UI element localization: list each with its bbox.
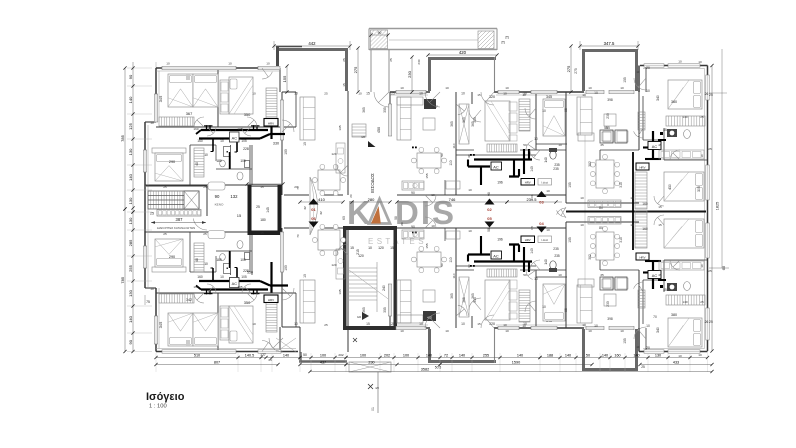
svg-text:10: 10: [678, 60, 682, 64]
svg-text:355: 355: [383, 307, 387, 313]
svg-text:15: 15: [342, 83, 346, 87]
svg-text:15: 15: [390, 246, 394, 250]
svg-text:10: 10: [461, 322, 465, 326]
terrace top-center walls: [428, 57, 496, 91]
svg-text:160: 160: [197, 275, 203, 279]
svg-text:10: 10: [523, 92, 527, 96]
svg-text:340: 340: [656, 95, 660, 101]
right wing outer walls: [639, 66, 708, 352]
svg-text:120: 120: [331, 152, 336, 156]
svg-text:240: 240: [382, 285, 386, 291]
svg-text:230: 230: [606, 301, 610, 307]
svg-text:746: 746: [449, 197, 456, 202]
closet X bottom-center: [459, 277, 469, 317]
svg-text:140.5: 140.5: [245, 353, 255, 357]
svg-text:4/8: 4/8: [375, 386, 379, 390]
svg-text:10: 10: [228, 62, 232, 66]
svg-text:10: 10: [358, 92, 362, 96]
svg-text:285: 285: [128, 239, 133, 246]
svg-text:10: 10: [534, 277, 538, 281]
svg-text:365: 365: [462, 297, 466, 303]
svg-text:155: 155: [425, 243, 429, 248]
svg-text:427: 427: [432, 105, 438, 109]
svg-text:20: 20: [400, 222, 404, 226]
svg-text:72: 72: [444, 353, 448, 357]
svg-text:AC: AC: [493, 253, 499, 258]
svg-text:365: 365: [462, 117, 466, 123]
kitchen counters center: [402, 181, 424, 239]
right wing wardrobes: [638, 112, 645, 308]
svg-text:10: 10: [588, 86, 592, 90]
svg-text:10: 10: [678, 354, 682, 358]
svg-text:26: 26: [705, 320, 709, 324]
svg-text:10: 10: [594, 324, 598, 328]
corridor dimension line: [298, 197, 562, 226]
svg-text:345: 345: [546, 95, 552, 99]
entrance walkway: [352, 50, 389, 147]
svg-text:10: 10: [698, 353, 702, 357]
svg-text:15: 15: [477, 322, 481, 326]
svg-text:25: 25: [700, 115, 704, 119]
svg-text:10: 10: [503, 323, 507, 327]
svg-text:15: 15: [366, 92, 370, 96]
svg-text:387: 387: [176, 217, 184, 222]
terrace bottom-center walls: [428, 329, 496, 363]
svg-text:130: 130: [128, 148, 133, 155]
svg-text:08: 08: [487, 228, 491, 232]
svg-text:140: 140: [128, 173, 133, 180]
AC bottom-right apartment: [643, 260, 667, 292]
bedrooms right-mid beds: [635, 150, 704, 270]
svg-text:120: 120: [378, 246, 384, 250]
svg-text:105: 105: [241, 275, 247, 279]
bedroom bottom-left2 double bed: [220, 300, 253, 343]
AC ducts bottom-center apartment: [412, 232, 552, 273]
svg-text:10: 10: [419, 322, 423, 326]
svg-text:HRV: HRV: [639, 166, 645, 170]
svg-text:275: 275: [566, 65, 571, 72]
left wing outer walls: [145, 68, 298, 352]
svg-text:25: 25: [342, 58, 346, 62]
svg-text:140: 140: [565, 353, 571, 357]
left wing bedroom partitions: [156, 68, 296, 352]
svg-text:1590: 1590: [512, 360, 520, 364]
svg-text:55: 55: [606, 126, 610, 130]
terrace top-left walls: [276, 46, 348, 91]
svg-text:230: 230: [407, 70, 412, 77]
svg-text:190: 190: [284, 265, 288, 271]
windows on exterior walls: [143, 64, 709, 353]
svg-text:125: 125: [128, 122, 133, 129]
room labels: [197, 68, 713, 344]
bathrooms left wing bottom: [194, 231, 252, 276]
svg-text:345: 345: [158, 96, 163, 103]
svg-text:90: 90: [128, 339, 133, 344]
svg-text:GR: GR: [357, 315, 361, 319]
apartment number markers: [309, 191, 547, 233]
svg-text:50.5: 50.5: [435, 366, 442, 370]
svg-text:10: 10: [468, 229, 472, 233]
svg-text:10: 10: [400, 329, 404, 333]
svg-text:50: 50: [523, 273, 527, 277]
svg-text:25: 25: [163, 232, 167, 236]
svg-text:3582: 3582: [421, 367, 429, 371]
svg-text:10: 10: [630, 196, 634, 200]
svg-text:25: 25: [203, 232, 207, 236]
svg-text:105: 105: [240, 159, 246, 163]
svg-text:10: 10: [646, 89, 650, 93]
svg-text:342: 342: [186, 298, 192, 302]
svg-text:110: 110: [452, 143, 456, 148]
svg-text:450: 450: [377, 127, 381, 133]
svg-text:25: 25: [709, 320, 713, 324]
svg-text:105: 105: [237, 285, 242, 289]
svg-text:155: 155: [282, 75, 287, 82]
svg-text:10: 10: [580, 223, 584, 227]
svg-text:275: 275: [574, 68, 578, 74]
svg-text:25: 25: [256, 205, 260, 209]
svg-text:365: 365: [362, 307, 366, 313]
right bathrooms: [667, 129, 690, 291]
inner wall faces: [148, 69, 705, 349]
svg-text:32: 32: [303, 206, 307, 210]
svg-text:785: 785: [120, 134, 125, 141]
svg-text:347.5: 347.5: [604, 41, 615, 46]
svg-text:HRV: HRV: [268, 121, 274, 125]
svg-text:160: 160: [197, 139, 203, 143]
svg-text:26: 26: [705, 92, 709, 96]
svg-text:10: 10: [204, 153, 208, 157]
svg-text:02: 02: [487, 207, 492, 212]
svg-text:10: 10: [431, 224, 435, 228]
svg-text:140: 140: [128, 315, 133, 322]
svg-text:15: 15: [260, 185, 264, 189]
svg-text:25: 25: [389, 58, 393, 62]
elevator shaft dark walls: [245, 182, 284, 235]
svg-text:550: 550: [247, 271, 253, 275]
left living sofas: [300, 97, 315, 323]
svg-text:10: 10: [558, 143, 562, 147]
extra door arcs: [207, 104, 680, 316]
svg-text:75: 75: [146, 300, 150, 304]
svg-text:280: 280: [368, 197, 375, 202]
left wing mid partitions: [145, 145, 282, 272]
svg-text:365: 365: [450, 121, 454, 127]
svg-text:10: 10: [431, 193, 435, 197]
svg-text:807: 807: [214, 360, 220, 364]
svg-text:105: 105: [241, 139, 247, 143]
left kitchens: [336, 143, 345, 279]
svg-text:32: 32: [319, 211, 323, 215]
svg-text:50: 50: [586, 353, 590, 357]
svg-text:10: 10: [588, 329, 592, 333]
svg-text:345: 345: [158, 322, 163, 329]
right wing partitions: [600, 66, 707, 351]
bottom extension lines: [156, 353, 708, 372]
svg-text:HRV: HRV: [639, 256, 645, 260]
svg-text:40: 40: [195, 162, 199, 166]
svg-text:145: 145: [266, 207, 270, 213]
svg-text:20: 20: [646, 346, 650, 350]
svg-text:10: 10: [445, 329, 449, 333]
svg-text:35: 35: [600, 273, 604, 277]
svg-text:25: 25: [708, 269, 712, 273]
svg-text:380: 380: [671, 313, 677, 317]
svg-text:15: 15: [477, 93, 481, 97]
svg-text:10: 10: [620, 329, 624, 333]
svg-text:340: 340: [656, 327, 660, 333]
svg-text:Π: Π: [505, 35, 508, 40]
coffee tables center: [423, 118, 435, 302]
right dimension column: [709, 49, 729, 353]
bedroom 02 bed: [485, 93, 552, 152]
svg-text:228: 228: [243, 147, 249, 151]
svg-text:90: 90: [467, 264, 471, 268]
svg-text:50: 50: [440, 153, 444, 157]
bedroom top-left2 double bed: [220, 77, 253, 117]
svg-text:110: 110: [452, 273, 456, 278]
svg-text:HRV: HRV: [525, 181, 531, 185]
svg-text:120: 120: [331, 263, 336, 267]
svg-text:398: 398: [607, 98, 613, 102]
bedroom 05 bed: [485, 269, 552, 328]
svg-text:365: 365: [362, 107, 366, 113]
svg-text:10: 10: [266, 62, 270, 66]
svg-text:437: 437: [320, 360, 326, 364]
svg-text:90: 90: [128, 74, 133, 79]
svg-text:10: 10: [303, 142, 307, 146]
svg-text:20: 20: [646, 66, 650, 70]
svg-text:10: 10: [166, 62, 170, 66]
bathrooms center: [446, 148, 560, 272]
svg-text:10: 10: [220, 139, 224, 143]
svg-text:160: 160: [642, 227, 648, 231]
svg-text:10: 10: [542, 109, 546, 113]
svg-text:355: 355: [383, 107, 387, 113]
svg-text:10: 10: [523, 322, 527, 326]
more labels: [163, 59, 704, 357]
svg-text:105: 105: [240, 258, 246, 262]
svg-text:70: 70: [296, 234, 300, 238]
closet X top-center: [459, 104, 469, 144]
svg-text:110: 110: [449, 257, 453, 262]
svg-text:10: 10: [252, 92, 256, 96]
svg-text:350: 350: [244, 112, 251, 117]
svg-text:230: 230: [368, 360, 374, 364]
svg-text:382: 382: [588, 161, 592, 167]
svg-text:10: 10: [700, 264, 704, 268]
svg-text:15: 15: [260, 231, 264, 235]
svg-text:398: 398: [607, 317, 613, 321]
svg-text:10: 10: [580, 196, 584, 200]
svg-text:1 : 100: 1 : 100: [149, 404, 167, 410]
svg-text:100: 100: [320, 353, 326, 357]
svg-text:130: 130: [128, 197, 133, 204]
bathrooms left wing top: [194, 145, 252, 190]
svg-text:08: 08: [487, 192, 491, 196]
svg-text:ΔΙΑΚΟΠΤΕΣ ΚΑΤΑΝΑΛΩΤΩΝ: ΔΙΑΚΟΠΤΕΣ ΚΑΤΑΝΑΛΩΤΩΝ: [157, 226, 195, 230]
svg-text:180: 180: [260, 218, 266, 222]
svg-text:105: 105: [568, 182, 572, 188]
switchboard strip: [150, 210, 206, 230]
corridor walls: [284, 195, 639, 228]
exit walkway below: [349, 338, 391, 413]
entrance canopy: [369, 29, 509, 51]
wardrobe hatch bottom-left: [159, 294, 277, 332]
living bottom-center sofa/TV: [397, 280, 436, 323]
svg-text:80: 80: [599, 226, 603, 230]
bedroom small top beds: [543, 99, 565, 321]
svg-text:365: 365: [450, 293, 454, 299]
svg-text:10: 10: [636, 345, 640, 349]
terrace bottom-left wall: [299, 352, 347, 362]
svg-text:10: 10: [294, 322, 298, 326]
bedroom bottom-left single beds: [158, 298, 218, 346]
door arcs: [194, 68, 664, 352]
svg-text:255: 255: [128, 264, 133, 271]
AC ducts top-center apartment: [412, 147, 552, 186]
svg-text:195: 195: [338, 289, 342, 294]
svg-text:120: 120: [358, 254, 364, 258]
svg-text:275: 275: [353, 66, 358, 73]
svg-text:06: 06: [311, 216, 316, 221]
svg-text:382: 382: [588, 254, 592, 260]
svg-text:10: 10: [150, 121, 154, 125]
terrace bottom-right walls: [582, 329, 638, 371]
svg-text:DIS: DIS: [395, 194, 456, 231]
svg-text:70: 70: [653, 315, 657, 319]
svg-text:235: 235: [554, 254, 560, 258]
svg-text:140: 140: [128, 96, 133, 103]
svg-text:235: 235: [553, 247, 559, 251]
terrace top-right walls: [582, 49, 638, 91]
svg-text:290: 290: [169, 255, 175, 259]
svg-text:105: 105: [237, 127, 242, 131]
right living sofas: [577, 97, 594, 323]
AC ducts bottom-left apartment: [196, 262, 288, 294]
AC top-right apartment: [643, 128, 667, 160]
bedroom bottom-right bed: [656, 295, 705, 347]
svg-text:202: 202: [384, 353, 390, 357]
svg-text:196: 196: [497, 238, 503, 242]
svg-text:25: 25: [324, 323, 328, 327]
svg-text:127: 127: [260, 353, 266, 357]
svg-text:Π: Π: [501, 40, 504, 45]
svg-text:45: 45: [658, 273, 662, 277]
svg-text:140: 140: [682, 300, 687, 304]
svg-text:365: 365: [471, 293, 475, 299]
right kitchen appliances: [600, 130, 627, 290]
svg-text:140: 140: [517, 353, 523, 357]
left dimension column extension lines: [127, 68, 152, 352]
svg-text:35: 35: [600, 143, 604, 147]
wardrobe hatch top-left: [159, 88, 277, 126]
svg-text:25: 25: [324, 92, 328, 96]
svg-text:90: 90: [215, 194, 220, 199]
svg-text:100: 100: [403, 353, 409, 357]
svg-text:03: 03: [539, 200, 544, 205]
svg-text:160: 160: [614, 353, 620, 357]
svg-text:AC: AC: [652, 144, 658, 149]
svg-text:25: 25: [391, 322, 395, 326]
svg-text:10: 10: [636, 70, 640, 74]
svg-text:45: 45: [663, 128, 667, 132]
svg-text:140: 140: [283, 353, 289, 357]
svg-text:196: 196: [497, 181, 503, 185]
svg-text:140: 140: [530, 248, 534, 254]
svg-text:AC: AC: [493, 164, 499, 169]
svg-text:l.duct: l.duct: [541, 238, 548, 242]
svg-text:140: 140: [544, 157, 548, 163]
left staircase: [148, 191, 199, 209]
svg-text:90: 90: [411, 191, 415, 195]
svg-text:80: 80: [599, 206, 603, 210]
svg-text:25: 25: [163, 185, 167, 189]
svg-text:290: 290: [169, 160, 175, 164]
svg-text:15: 15: [658, 205, 662, 209]
svg-text:10: 10: [646, 324, 650, 328]
svg-text:15: 15: [237, 213, 242, 218]
left elevator X box: [146, 186, 242, 230]
svg-text:10: 10: [445, 86, 449, 90]
extra small labels: [150, 58, 712, 358]
svg-text:188: 188: [547, 353, 553, 357]
living top-center sofa/TV: [397, 97, 436, 140]
bedroom left-mid beds: [152, 148, 186, 272]
svg-text:105: 105: [568, 237, 572, 243]
svg-text:95: 95: [564, 108, 568, 112]
svg-text:10: 10: [220, 275, 224, 279]
svg-text:365: 365: [471, 121, 475, 127]
svg-text:140: 140: [544, 259, 548, 265]
bedroom top-left single beds: [158, 74, 218, 116]
svg-text:433: 433: [673, 360, 679, 364]
svg-text:315: 315: [619, 237, 623, 243]
svg-text:180: 180: [216, 258, 222, 262]
svg-text:10: 10: [582, 323, 586, 327]
right wing party wall (bold): [566, 210, 706, 212]
center outer walls: [390, 92, 584, 328]
svg-text:15: 15: [366, 322, 370, 326]
svg-text:25: 25: [203, 185, 207, 189]
svg-text:01: 01: [311, 207, 316, 212]
svg-text:HRV: HRV: [268, 298, 274, 302]
svg-text:10: 10: [503, 92, 507, 96]
svg-text:10: 10: [546, 189, 550, 193]
svg-text:60: 60: [342, 216, 346, 220]
svg-text:45: 45: [658, 143, 662, 147]
left dimension column: [120, 62, 156, 353]
svg-text:90: 90: [378, 31, 382, 35]
svg-text:10: 10: [558, 273, 562, 277]
svg-text:155: 155: [623, 338, 627, 344]
watermark KADIS ESTATES logo: [347, 194, 456, 246]
svg-text:180: 180: [216, 159, 222, 163]
bedroom top-right bed: [656, 80, 705, 126]
svg-text:140: 140: [602, 353, 608, 357]
svg-text:160: 160: [193, 127, 198, 131]
svg-text:20: 20: [294, 185, 298, 189]
svg-text:08: 08: [394, 216, 398, 220]
svg-text:15: 15: [658, 223, 662, 227]
svg-text:AC: AC: [232, 135, 238, 140]
svg-text:110: 110: [449, 160, 453, 165]
svg-text:40: 40: [195, 258, 199, 262]
svg-text:430: 430: [668, 184, 672, 190]
svg-text:20: 20: [349, 226, 353, 230]
svg-text:130: 130: [128, 217, 133, 224]
svg-text:10: 10: [505, 329, 509, 333]
